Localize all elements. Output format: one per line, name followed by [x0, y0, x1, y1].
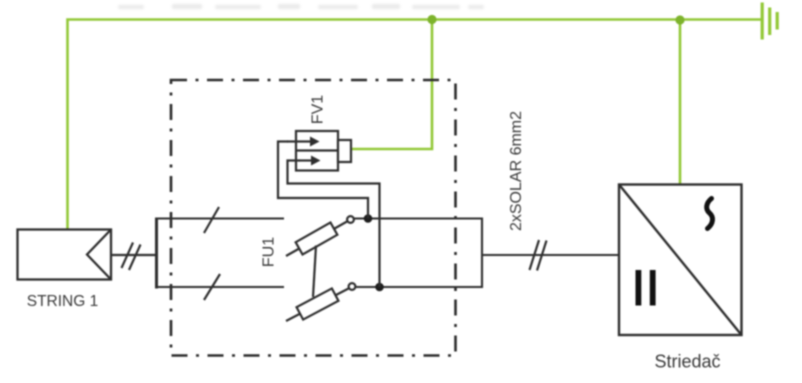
PV string module STRING 1: [18, 230, 112, 280]
FV1 arrow upper: [287, 137, 320, 147]
wire: FV1 upper input from DC+ junction: [278, 142, 368, 219]
svg-text:STRING 1: STRING 1: [27, 293, 98, 310]
svg-text:FV1: FV1: [310, 95, 327, 124]
wire: green PE bus, top horizontal + drop to STRING 1: [68, 20, 763, 231]
wire: DC+ pole: [157, 217, 285, 219]
node: junction on PE bus above inverter: [675, 15, 684, 24]
wire: STRING 1 to disconnector: [111, 254, 157, 256]
wire: DC- pole: [157, 286, 285, 288]
wire: green drop to inverter: [679, 20, 682, 187]
ground (PE earth symbol, rotated): [761, 3, 779, 40]
wire: output box to inverter: [482, 254, 619, 256]
wire: DC- bus to output box: [356, 286, 483, 288]
breaker slash on DC+ pole: [204, 207, 219, 233]
svg-text:2xSOLAR 6mm2: 2xSOLAR 6mm2: [508, 111, 525, 231]
inverter AC tilde symbol: [707, 199, 713, 229]
wire: FV1 lower input from DC- junction: [288, 161, 380, 288]
node: DC+ junction: [364, 214, 373, 223]
fuse-switch FU1 upper pole: [286, 216, 354, 256]
inverter U1 box: [619, 185, 742, 336]
cable marker double slash on inverter wire: [530, 240, 547, 271]
cable marker double slash on STRING 1 wire: [122, 243, 141, 271]
dash-dot enclosure (combiner box boundary): [171, 80, 456, 356]
svg-text:Striedač: Striedač: [654, 352, 720, 372]
fuse-switch FU1 lower pole: [286, 283, 355, 321]
breaker slash on DC- pole: [204, 274, 220, 300]
inverter DC bars: [636, 270, 656, 306]
disconnector input bar: [155, 218, 158, 289]
node: DC- junction: [375, 283, 384, 292]
wire: output box right edge: [481, 218, 483, 289]
surge arrester FV1: [296, 131, 351, 171]
node: junction on PE bus above FV1: [427, 15, 436, 24]
mechanical link between FU1 poles: [313, 246, 316, 298]
FV1 arrow lower: [299, 156, 321, 166]
wire: green drop to FV1 output: [352, 20, 433, 150]
faint cropped-text smudges at top edge: [118, 4, 484, 9]
wire: DC+ bus to output box: [354, 217, 482, 219]
svg-text:FU1: FU1: [261, 237, 278, 267]
